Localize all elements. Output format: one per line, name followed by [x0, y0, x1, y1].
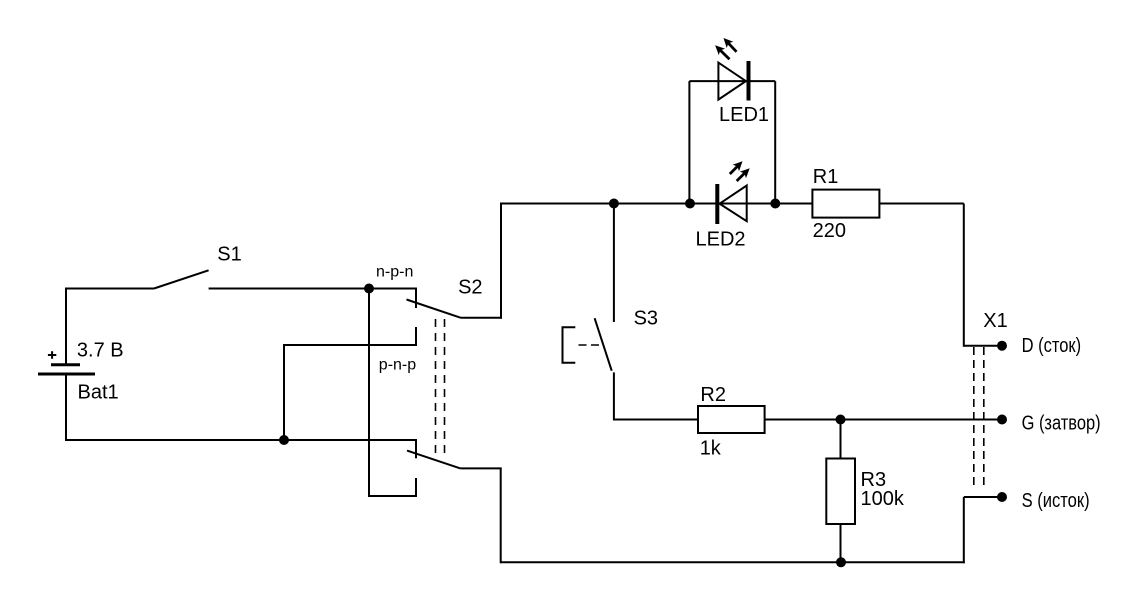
wire R3 upper stem: [840, 420, 842, 459]
node C junction dot (S3 branch): [609, 199, 619, 209]
wire S1 to node A: [209, 288, 417, 290]
svg-text:S (исток): S (исток): [1022, 490, 1090, 512]
wire S3 lower vertical: [613, 372, 615, 420]
wire pin S: [964, 496, 1002, 498]
node A junction dot: [364, 284, 374, 294]
svg-text:p-n-p: p-n-p: [379, 356, 416, 373]
wire n-p-n lower contact vertical: [283, 345, 285, 440]
pin S dot: [997, 492, 1007, 502]
wire LED1 top horizontal: [689, 80, 775, 82]
wire LED1 left branch vertical: [688, 81, 690, 203]
LED2 emission arrow 2: [737, 173, 745, 181]
svg-text:R1: R1: [813, 166, 839, 188]
switch S2 p-n-p lower contact stub: [415, 478, 417, 497]
switch S3 pushbutton bracket: [563, 327, 576, 363]
svg-text:R2: R2: [700, 384, 726, 406]
S2 linkage dashed line right: [444, 319, 446, 457]
node G junction dot on bottom rail: [836, 557, 846, 567]
wire bottom-left rail: [65, 439, 416, 441]
svg-text:LED2: LED2: [696, 228, 746, 250]
wire top-left horizontal to S1: [65, 288, 154, 290]
wire S2 lower throw vertical to bottom rail: [500, 468, 502, 563]
switch S3 actuator dashed link: [579, 344, 605, 346]
wire n-p-n lower contact horizontal: [283, 344, 416, 346]
resistor R2 body: [698, 406, 765, 433]
wire node A vertical down: [368, 289, 370, 498]
wire bottom rail: [501, 561, 965, 563]
battery Bat1 negative plate: [38, 373, 95, 376]
wire R3 lower stem: [840, 524, 842, 562]
svg-text:220: 220: [813, 220, 846, 242]
LED1 emission arrow 1: [728, 43, 736, 52]
svg-text:G (затвор): G (затвор): [1022, 413, 1101, 435]
LED2 cathode bar: [715, 184, 719, 224]
pin D dot: [997, 341, 1007, 351]
svg-text:S1: S1: [217, 244, 241, 266]
switch S3 lever: [595, 318, 612, 371]
svg-text:n-p-n: n-p-n: [376, 263, 413, 280]
S2 linkage dashed line left: [435, 319, 437, 457]
resistor R3 body: [826, 459, 855, 525]
wire S2 lower throw: [460, 467, 501, 469]
node F junction dot (R3 top): [836, 415, 846, 425]
wire R1 to X1 vertical: [963, 204, 965, 347]
svg-text:3.7 В: 3.7 В: [77, 339, 124, 361]
switch S2 lower fixed contact stub: [415, 439, 417, 458]
X1 linkage dashed line right: [983, 347, 985, 489]
wire S3 upper vertical: [613, 204, 615, 323]
wire battery bottom vertical: [65, 374, 67, 441]
LED1 triangle (anode, pointing right): [718, 63, 746, 100]
switch S1 lever: [154, 270, 209, 288]
switch S2 upper fixed contact stub: [415, 288, 417, 309]
node E junction dot (LED1 right branch): [770, 199, 780, 209]
svg-text:1k: 1k: [700, 438, 722, 460]
wire LED1 right branch vertical: [774, 81, 776, 203]
LED1 cathode bar: [747, 61, 751, 101]
resistor R1 body: [812, 190, 879, 218]
LED1 emission arrow 2: [720, 50, 729, 59]
svg-text:100k: 100k: [861, 488, 905, 510]
node B junction dot on bottom-left rail: [279, 435, 289, 445]
LED2 triangle (pointing left): [720, 186, 747, 222]
svg-text:X1: X1: [983, 310, 1007, 332]
svg-text:S3: S3: [634, 307, 658, 329]
switch S2 lower lever: [407, 451, 460, 469]
svg-text:D (сток): D (сток): [1022, 335, 1082, 357]
svg-text:S2: S2: [458, 276, 482, 298]
wire top rail: [501, 203, 964, 205]
wire pin S corner vertical to bottom rail: [963, 497, 965, 563]
wire S3 to R2: [614, 419, 698, 421]
wire S2 upper throw: [461, 317, 503, 319]
wire S2 upper throw vertical to top rail: [500, 203, 502, 319]
switch S2 n-p-n lower contact stub: [415, 327, 417, 346]
switch S2 upper lever: [407, 300, 461, 318]
svg-text:LED1: LED1: [719, 104, 769, 126]
wire battery top vertical: [65, 289, 67, 365]
LED2 emission arrow 1: [730, 166, 738, 174]
wire p-n-p lower contact horizontal: [369, 495, 417, 497]
wire pin D: [964, 345, 1002, 347]
battery plus sign: [48, 354, 56, 356]
wire R2 to pin G: [765, 419, 1002, 421]
svg-text:Bat1: Bat1: [78, 382, 119, 404]
X1 linkage dashed line left: [973, 347, 975, 489]
pin G dot: [997, 415, 1007, 425]
battery Bat1 positive plate: [51, 363, 80, 366]
node D junction dot (LED1 left branch): [685, 199, 695, 209]
